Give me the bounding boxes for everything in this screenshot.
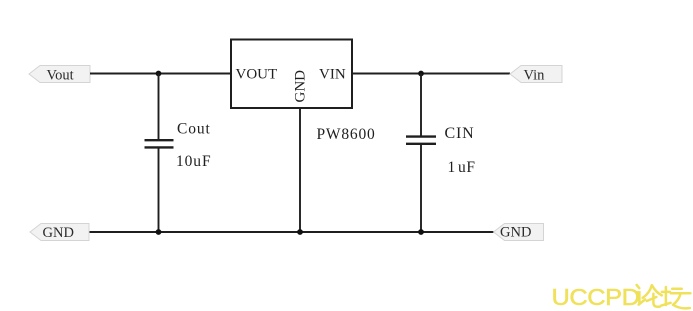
- svg-text:UCCPD: UCCPD: [552, 285, 640, 311]
- port tag Vin: [510, 66, 562, 84]
- wire net Vin top-right: [352, 73, 510, 75]
- svg-text:GND: GND: [293, 70, 309, 103]
- svg-text:VIN: VIN: [319, 67, 346, 83]
- node junction GND/Cout: [156, 229, 162, 235]
- svg-text:10uF: 10uF: [176, 153, 211, 170]
- wire Cout lower lead: [158, 147, 160, 232]
- svg-text:Cout: Cout: [177, 121, 211, 138]
- watermark glyph 论: [636, 285, 661, 307]
- node junction GND/CIN: [418, 229, 424, 235]
- svg-text:GND: GND: [43, 225, 74, 241]
- svg-text:Vout: Vout: [47, 68, 74, 84]
- svg-text:Vin: Vin: [524, 68, 546, 84]
- wire CIN upper lead: [420, 74, 422, 137]
- node junction Vout/Cout: [156, 71, 162, 77]
- wire net GND bottom rail: [89, 231, 494, 233]
- port tag Vout: [29, 66, 90, 84]
- wire net Vout top-left: [90, 73, 231, 75]
- IC U1 PW8600 body: [231, 40, 352, 109]
- svg-text:CIN: CIN: [445, 125, 475, 142]
- wire GND center lead from U1: [299, 108, 301, 233]
- capacitor Cout: [145, 140, 174, 147]
- wire Cout upper lead: [158, 74, 160, 141]
- capacitor CIN: [406, 137, 436, 144]
- svg-text:1 uF: 1 uF: [448, 159, 476, 176]
- svg-text:VOUT: VOUT: [236, 67, 278, 83]
- watermark glyph 坛: [661, 287, 690, 308]
- wire CIN lower lead: [420, 144, 422, 232]
- node junction GND/U1: [297, 229, 303, 235]
- node junction Vin/CIN: [418, 71, 424, 77]
- svg-text:PW8600: PW8600: [317, 126, 376, 143]
- svg-text:GND: GND: [500, 225, 531, 241]
- port tag GND left: [30, 224, 89, 242]
- port tag GND right: [494, 224, 544, 241]
